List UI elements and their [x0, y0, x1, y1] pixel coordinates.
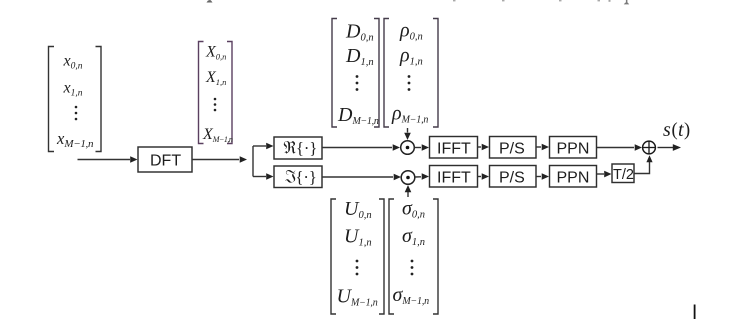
wire sigma up to multiplier M2 — [405, 185, 412, 197]
svg-text:DM−1,n: DM−1,n — [337, 104, 379, 127]
wire DFT to split junction — [192, 156, 247, 163]
wire adder to output s(t) — [658, 144, 682, 151]
svg-text:P/S: P/S — [499, 141, 525, 158]
wire P/S to PPN bottom — [536, 173, 549, 180]
svg-text:PPN: PPN — [557, 141, 590, 158]
svg-text:{·}: {·} — [296, 139, 317, 158]
block Im{.} — [274, 166, 322, 188]
wire split to Re block — [253, 143, 274, 150]
block IFFT top — [430, 137, 478, 159]
wire PPN top to adder — [597, 144, 643, 151]
vector X (DFT output) — [199, 42, 233, 145]
svg-text:IFFT: IFFT — [437, 141, 471, 158]
block P/S top — [490, 137, 537, 159]
svg-text:ρM−1,n: ρM−1,n — [391, 103, 428, 126]
vector x input — [49, 47, 102, 152]
residual text fragments top edge — [207, 0, 630, 4]
adder node (circled plus) — [643, 141, 656, 154]
svg-text:T/2: T/2 — [613, 167, 634, 183]
svg-text:σ0,n: σ0,n — [402, 198, 425, 221]
svg-text:X0,n: X0,n — [205, 44, 226, 62]
svg-text:σM−1,n: σM−1,n — [393, 284, 430, 307]
svg-text:P/S: P/S — [499, 170, 525, 187]
block IFFT bottom — [430, 166, 478, 188]
block PPN bottom — [550, 166, 597, 188]
svg-text:(: ( — [672, 121, 678, 141]
svg-text:PPN: PPN — [557, 170, 590, 187]
wire M2 to IFFT bottom — [415, 173, 429, 180]
svg-text:xM−1,n: xM−1,n — [56, 129, 94, 150]
svg-text:XM−1,n: XM−1,n — [202, 126, 233, 144]
multiplier node M2 (circled dot) — [401, 171, 415, 185]
block Re{.} — [274, 137, 322, 159]
svg-text:): ) — [684, 121, 690, 141]
svg-text:U0,n: U0,n — [344, 198, 372, 221]
svg-text:D1,n: D1,n — [345, 45, 374, 68]
wire IFFT to P/S bottom — [478, 173, 490, 180]
wire rho down to multiplier M1 — [404, 128, 411, 140]
svg-text:U1,n: U1,n — [344, 226, 372, 249]
block PPN top — [550, 137, 597, 159]
svg-text:x1,n: x1,n — [63, 80, 83, 99]
vector rho — [384, 19, 438, 128]
block P/S bottom — [490, 166, 537, 188]
wire M1 to IFFT top — [415, 144, 430, 151]
svg-text:ρ1,n: ρ1,n — [399, 44, 423, 67]
output label s(t) — [663, 119, 690, 141]
vector D — [332, 19, 379, 128]
wire P/S to PPN top — [536, 144, 549, 151]
multiplier node M1 (circled dot) — [401, 141, 415, 155]
svg-text:IFFT: IFFT — [437, 170, 471, 187]
svg-text:D0,n: D0,n — [345, 21, 374, 44]
vector sigma — [389, 198, 438, 315]
wire Re to multiplier M1 — [322, 144, 400, 151]
svg-text:σ1,n: σ1,n — [402, 225, 425, 248]
block T/2 delay — [612, 164, 634, 183]
block DFT — [138, 147, 192, 172]
wire PPN bottom to T/2 — [597, 171, 612, 178]
svg-text:DFT: DFT — [150, 153, 181, 170]
svg-text:ρ0,n: ρ0,n — [399, 20, 423, 43]
svg-text:x0,n: x0,n — [63, 53, 83, 72]
wire split to Im block — [253, 173, 274, 180]
split junction node — [252, 146, 254, 177]
svg-text:{·}: {·} — [296, 168, 317, 187]
vector U — [331, 198, 384, 314]
svg-text:s: s — [663, 119, 671, 141]
wire Im to multiplier M2 — [322, 174, 401, 181]
wire IFFT to P/S top — [478, 144, 490, 151]
svg-text:X1,n: X1,n — [205, 69, 226, 87]
svg-text:UM−1,n: UM−1,n — [337, 286, 378, 309]
wire x to DFT — [78, 156, 138, 163]
stray cursor mark bottom right — [694, 305, 696, 320]
wire T/2 up to adder — [634, 155, 653, 173]
